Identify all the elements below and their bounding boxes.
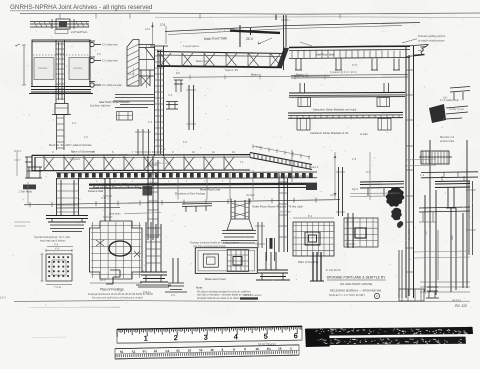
svg-text:3-¾ bolts ea side: 3-¾ bolts ea side — [102, 83, 122, 87]
svg-text:2nd floor slab line: 2nd floor slab line — [90, 104, 111, 108]
roof slab dark edge — [230, 31, 280, 33]
svg-text:16: 16 — [199, 348, 203, 352]
right base details — [399, 289, 424, 301]
svg-text:2-2½x2½x¼: 2-2½x2½x¼ — [71, 30, 88, 34]
leader arrows top — [258, 38, 272, 44]
svg-text:each way top & bottom: each way top & bottom — [40, 240, 65, 243]
left frame marks — [14, 150, 28, 205]
dim marks above ladder — [153, 22, 167, 44]
floor line band — [89, 183, 317, 186]
roof plan detail (top-left) — [30, 22, 89, 28]
dim vertical 24-0 — [240, 25, 251, 47]
latticed girder (center-left) — [157, 52, 286, 54]
svg-text:Detail at Wall: Detail at Wall — [88, 189, 104, 193]
basement line left — [57, 207, 120, 209]
bottom border line — [14, 301, 470, 302]
svg-text:3"grout: 3"grout — [143, 291, 151, 294]
second stanchion beam — [288, 111, 403, 114]
svg-text:4"-6": 4"-6" — [352, 64, 358, 67]
connection symbol 1 — [90, 42, 94, 46]
svg-text:7'-0 sq: 7'-0 sq — [54, 286, 62, 289]
right wall column — [406, 46, 414, 298]
svg-text:Area drain: Area drain — [109, 213, 121, 216]
pier top details — [419, 207, 470, 212]
svg-text:Brackets to spread footing con: Brackets to spread footing conn. — [276, 175, 312, 178]
lower wall beam — [289, 91, 405, 94]
footing plan F5 — [293, 222, 334, 256]
svg-text:Beam Sect.: Beam Sect. — [196, 59, 210, 63]
svg-text:4123-1: 4123-1 — [452, 299, 462, 303]
top border ticks — [59, 14, 61, 19]
svg-text:5: 5 — [264, 332, 268, 341]
ladder column (center) — [155, 46, 164, 156]
mid horizontals x350-400 — [350, 193, 400, 197]
svg-text:Saw Tooth Girder Bracket: Saw Tooth Girder Bracket — [99, 100, 130, 104]
title underline — [327, 279, 386, 281]
column base C1 — [46, 216, 88, 223]
svg-text:Basement Floor: Basement Floor — [205, 277, 226, 281]
svg-text:concrete: concrete — [73, 67, 83, 70]
left small marks — [14, 222, 30, 226]
scan speckle noise — [220, 177, 222, 180]
svg-text:16-I 42# 6 x 4 x ⅜ L: 16-I 42# 6 x 4 x ⅜ L — [150, 162, 172, 165]
bottom left heavy dash — [240, 297, 258, 299]
svg-text:5 equal spaces: 5 equal spaces — [183, 45, 200, 48]
restriction stamp — [306, 327, 473, 336]
svg-text:Member 1 &: Member 1 & — [440, 135, 454, 139]
svg-text:Beam 9: Beam 9 — [310, 166, 319, 169]
vertical pair x189-194 — [189, 85, 194, 130]
svg-text:5'-0: 5'-0 — [183, 141, 188, 144]
latticed column (left-center) — [127, 40, 139, 87]
knee bracket — [139, 45, 155, 60]
column at x56-79 — [57, 178, 79, 215]
svg-text:16: 16 — [210, 348, 214, 352]
left beam to column — [360, 181, 404, 188]
dim vertical x335 — [334, 152, 336, 199]
dark riser bar — [270, 238, 273, 249]
wall mid lines — [291, 75, 408, 79]
svg-text:2-10: 2-10 — [145, 28, 150, 31]
svg-text:Note:: Note: — [196, 285, 203, 289]
beam section detail (right) — [421, 151, 449, 164]
scan mottling — [296, 7, 318, 29]
svg-text:2-¾ bolts thru: 2-¾ bolts thru — [102, 59, 118, 63]
svg-text:anchor bolts: anchor bolts — [440, 139, 455, 143]
svg-text:2-¾ bolts thru: 2-¾ bolts thru — [102, 43, 118, 47]
ink scribble blob — [386, 187, 405, 228]
svg-text:6: 6 — [294, 331, 298, 340]
svg-text:3'-6: 3'-6 — [168, 94, 173, 97]
dim above sloped beam — [253, 146, 310, 157]
footing F1 dims — [46, 284, 72, 286]
svg-text:8¼: 8¼ — [267, 347, 272, 351]
brick hatch block — [429, 104, 446, 123]
column pair x350 — [348, 213, 353, 248]
faint fold lines — [30, 306, 120, 309]
footing plan F2 — [90, 221, 143, 279]
column base elevation D — [266, 252, 276, 270]
sloped lattice beam — [250, 153, 312, 165]
dim 4-6 row — [47, 246, 73, 248]
post right of title — [399, 250, 402, 298]
bracket between columns — [139, 70, 154, 86]
vertical x370 — [369, 152, 371, 200]
hanger verticals — [178, 170, 253, 200]
right beam segment — [435, 181, 470, 188]
svg-text:this way west wall below col b: this way west wall below col bearing are… — [92, 297, 144, 300]
svg-text:⅞1: ⅞1 — [131, 350, 136, 354]
svg-text:2x4: 2x4 — [443, 97, 448, 100]
right bracket detail — [450, 87, 470, 101]
small marks below girder — [174, 80, 183, 92]
secondary top line — [155, 16, 480, 19]
small column x107 — [105, 178, 110, 221]
column at x340 — [339, 167, 343, 216]
svg-text:Toilet Floor Above Rooms 7-9: Toilet Floor Above Rooms 7-9 the club — [252, 205, 303, 209]
svg-text:10'-6: 10'-6 — [128, 73, 134, 76]
footing plan F6 — [344, 218, 378, 247]
column at x150 — [148, 156, 158, 240]
svg-text:GNRHS-NPRHA Joint Archives - a: GNRHS-NPRHA Joint Archives - all rights … — [10, 4, 153, 11]
wall roof beam (right of center) — [289, 46, 410, 47]
svg-text:Precast molding anchor: Precast molding anchor — [418, 34, 445, 38]
long dim line y77 — [173, 76, 330, 77]
main truss girder — [32, 154, 250, 157]
svg-text:concrete: concrete — [38, 67, 48, 70]
narrow column below tower — [138, 129, 149, 155]
step outline — [106, 270, 120, 284]
svg-text:E. Job No 30: E. Job No 30 — [326, 269, 341, 272]
column side bracket — [166, 102, 178, 110]
svg-text:24'-0: 24'-0 — [246, 37, 253, 41]
hoist rail detail — [182, 203, 212, 206]
svg-text:Main Roof Slab: Main Roof Slab — [204, 36, 227, 41]
svg-text:Stanchion Girder Brackets one: Stanchion Girder Brackets one req'd — [313, 108, 357, 112]
svg-text:Roof El. 21'-10¾" about Cornic: Roof El. 21'-10¾" about Cornice — [49, 143, 92, 147]
svg-text:Plan of Footings: Plan of Footings — [100, 288, 124, 292]
right verticals — [469, 181, 473, 255]
boxed column detail — [195, 248, 257, 274]
svg-text:Wall: Wall — [452, 235, 454, 240]
svg-text:Part of West Elevation Main Bl: Part of West Elevation Main Bldg — [93, 186, 141, 190]
svg-text:1 Ton Hoist: 1 Ton Hoist — [19, 190, 33, 194]
svg-text:Elevations of New Footings: Elevations of New Footings — [175, 193, 206, 196]
svg-text:to match existing stone: to match existing stone — [418, 39, 445, 43]
svg-text:8'-2: 8'-2 — [308, 215, 313, 218]
svg-text:2nd floor: 2nd floor — [280, 210, 291, 214]
left small brackets — [117, 112, 133, 121]
footing plan F1 — [46, 254, 72, 281]
wall section panel (top-left) — [32, 40, 90, 87]
svg-text:Wall Roof Slab: Wall Roof Slab — [316, 53, 335, 57]
svg-text:4'-6: 4'-6 — [54, 244, 59, 247]
svg-text:12'-0: 12'-0 — [0, 296, 6, 300]
svg-text:SCALE ¼"= 1'-0" NOV 30 1917: SCALE ¼"= 1'-0" NOV 30 1917 — [329, 293, 366, 297]
svg-text:Plan of Footing: Plan of Footing — [298, 260, 319, 264]
column C2 with base — [146, 222, 161, 272]
svg-text:61: 61 — [176, 349, 180, 353]
drawing number circle — [374, 293, 379, 298]
second floor slab lines — [113, 95, 154, 108]
svg-text:Col: Col — [426, 231, 428, 235]
top border line — [20, 13, 480, 14]
svg-text:1"4: 1"4 — [160, 23, 165, 27]
svg-text:1'-3: 1'-3 — [420, 174, 425, 177]
hoist bracket — [27, 167, 42, 178]
pipe detail — [258, 222, 262, 248]
svg-text:1: 1 — [144, 334, 148, 343]
svg-text:61: 61 — [154, 349, 158, 353]
pier tie lines — [405, 159, 436, 166]
vertical grid line x284 — [284, 15, 287, 70]
svg-text:of slab: of slab — [360, 132, 368, 136]
svg-text:New Floor Line: New Floor Line — [200, 188, 221, 192]
svg-text:Cantilever Girder Brackets & J: Cantilever Girder Brackets & Jib — [310, 131, 349, 135]
right ties y172-178 — [421, 172, 478, 178]
left dim marks — [15, 44, 26, 85]
svg-text:Span L 36': Span L 36' — [225, 68, 239, 72]
svg-text:2'-8: 2'-8 — [352, 158, 357, 161]
anchor tick row — [56, 171, 317, 174]
svg-text:11'-2: 11'-2 — [160, 148, 166, 151]
column elevation F4 — [231, 199, 249, 220]
svg-text:14'-0: 14'-0 — [100, 279, 106, 282]
svg-text:6¼: 6¼ — [143, 349, 148, 353]
ladder-floor junction blob — [143, 186, 153, 196]
svg-text:6 spaces @ 4'-0 = 24'-0: 6 spaces @ 4'-0 = 24'-0 — [330, 71, 357, 74]
svg-text:Col 5: Col 5 — [330, 194, 336, 197]
upper ruler (inches) — [117, 326, 302, 343]
long dimension line — [24, 200, 340, 205]
svg-text:anchor ¾ bolt: anchor ¾ bolt — [449, 108, 464, 111]
right pier sections — [424, 195, 426, 292]
svg-text:4'-6: 4'-6 — [55, 248, 60, 251]
main roof slab lines — [165, 23, 420, 32]
connection symbol 3 — [90, 83, 94, 87]
svg-text:size than a typical detail sho: size than a typical detail shown — [193, 245, 227, 248]
svg-text:16: 16 — [256, 347, 260, 351]
svg-text:4'-0: 4'-0 — [148, 121, 153, 124]
column at x281 — [279, 173, 288, 252]
svg-text:10'-0: 10'-0 — [352, 187, 358, 191]
column base C3 — [173, 258, 178, 283]
svg-text:Main Wall: Main Wall — [408, 229, 411, 240]
dim arrow x292 — [291, 150, 293, 182]
svg-text:⅝1: ⅝1 — [165, 349, 170, 353]
svg-text:16: 16 — [278, 347, 282, 351]
svg-text:2'-6: 2'-6 — [171, 294, 176, 297]
connection symbol 2 — [90, 58, 94, 62]
truss end post — [32, 155, 35, 171]
svg-text:SPOKANE PORTLAND & SEATTLE RY: SPOKANE PORTLAND & SEATTLE RY — [327, 276, 386, 280]
svg-text:OIL AND PAINT HOUSE: OIL AND PAINT HOUSE — [340, 282, 373, 286]
svg-text:2: 2 — [174, 333, 178, 342]
dark column stub — [313, 252, 321, 281]
lower ruler (16ths) — [115, 345, 299, 359]
svg-text:old floor: old floor — [246, 194, 255, 197]
svg-text:16: 16 — [188, 348, 192, 352]
svg-text:PG. 313: PG. 313 — [455, 304, 467, 308]
svg-text:RECEIVING BUREAU — SPOKANE WN.: RECEIVING BUREAU — SPOKANE WN. — [330, 288, 382, 292]
svg-text:61: 61 — [120, 350, 124, 354]
svg-text:3: 3 — [204, 333, 208, 342]
svg-text:40'-0 col centers: 40'-0 col centers — [244, 294, 262, 297]
